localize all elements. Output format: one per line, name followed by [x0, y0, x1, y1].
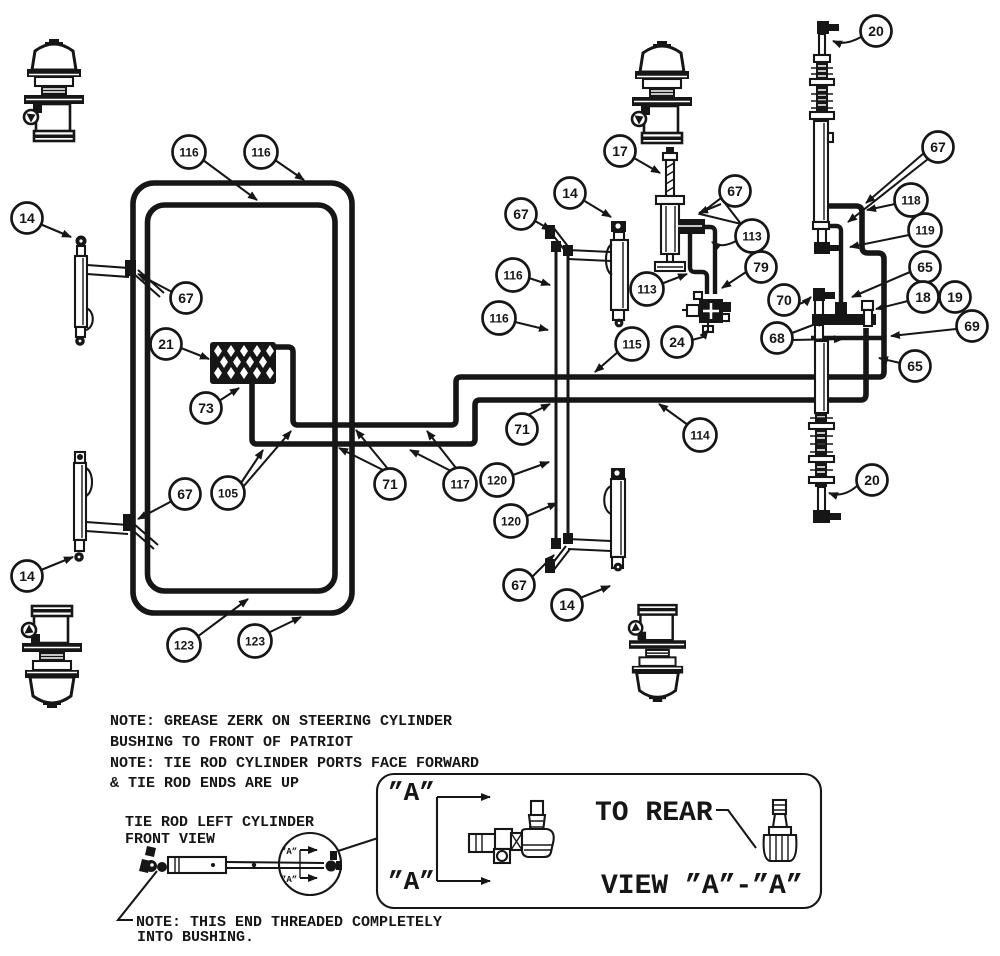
steering arm bottom-center [549, 546, 566, 568]
svg-text:67: 67 [513, 206, 529, 222]
balloon 21 [151, 329, 182, 360]
balloon 18 [908, 282, 939, 313]
view box fitting right: collar [769, 827, 791, 835]
leader 14 top-left [40, 224, 71, 237]
svg-text:120: 120 [487, 474, 507, 488]
balloon 71 mid [507, 414, 538, 445]
svg-text:116: 116 [503, 269, 523, 283]
leader 67 mid triangle [700, 198, 741, 224]
balloon 14 bottom-mid [552, 590, 583, 621]
drag link lower threaded section [815, 413, 827, 487]
drag link mid end fitting [814, 242, 830, 254]
balloon 65 lower [900, 351, 931, 382]
drag link upper collar [814, 55, 830, 62]
tie rod cylinder upper-left: body [75, 256, 87, 327]
leader 67 right double [866, 153, 924, 203]
drag link arm thick bar [812, 314, 876, 325]
leader 14 bottom-mid [580, 586, 610, 598]
steering cylinder 17: body [661, 204, 679, 254]
balloon 117 [444, 468, 477, 501]
svg-text:INTO BUSHING.: INTO BUSHING. [137, 929, 254, 946]
leader 79 [722, 272, 746, 288]
hose 116 vertical pair left line [555, 247, 558, 545]
balloon 79 [746, 252, 777, 283]
drag link steering arm bolts [813, 288, 825, 301]
drag link upper tube [814, 121, 828, 222]
leader 113 left [661, 274, 687, 284]
svg-text:17: 17 [612, 143, 628, 159]
steering arm upper-left [134, 274, 160, 297]
front view tie rod: cylinder body [168, 857, 226, 873]
svg-text:24: 24 [669, 334, 685, 350]
leader 73 [219, 388, 239, 401]
leader 71 double [339, 448, 383, 470]
leader 105 double [241, 450, 263, 483]
balloon 115 [616, 328, 649, 361]
hose 116/123 inner loop [148, 205, 336, 591]
drag link upper rod [819, 34, 825, 55]
svg-text:105: 105 [218, 487, 238, 501]
leader 67 bottom-mid [532, 555, 554, 577]
steering cylinder 17: flange [656, 196, 684, 204]
svg-text:71: 71 [514, 421, 530, 437]
drag link top end fitting [817, 21, 829, 34]
tie rod link lower-left [86, 522, 128, 525]
svg-text:FRONT VIEW: FRONT VIEW [125, 831, 215, 848]
balloon 65 upper [910, 252, 941, 283]
hose 115 lower run from coil to right axle [252, 328, 866, 444]
view box fitting right: ball housing [764, 835, 797, 861]
steering cylinder 17: rod with hatch [666, 160, 674, 196]
balloon 73 [191, 393, 222, 424]
tie rod cylinder upper-left: neck [77, 246, 85, 256]
view A-A box [377, 774, 821, 908]
fitting on hose 119 end [835, 302, 847, 315]
view box bracket arrows [436, 797, 438, 881]
leader 20 bottom [829, 486, 857, 494]
tie rod cylinder bottom-center: body [611, 479, 625, 557]
svg-text:”A”: ”A” [281, 875, 297, 885]
detail circle A [279, 833, 341, 895]
tie rod cylinder bottom-center: rod cap [611, 468, 625, 479]
svg-text:67: 67 [727, 183, 743, 199]
leader 24 [692, 330, 708, 340]
balloon 119 [909, 214, 942, 247]
balloon 120 a [481, 464, 514, 497]
svg-text:116: 116 [251, 146, 271, 160]
svg-text:TIE ROD LEFT CYLINDER: TIE ROD LEFT CYLINDER [125, 814, 314, 831]
tie rod cylinder lower-left: rod cap [75, 452, 85, 463]
svg-text:VIEW ”A”-”A”: VIEW ”A”-”A” [601, 871, 803, 902]
tie rod cylinder bottom-center: clevis and ball [612, 557, 623, 568]
svg-text:116: 116 [179, 146, 199, 160]
tie rod cylinder lower-left: body [74, 463, 86, 540]
svg-text:69: 69 [964, 318, 980, 334]
svg-text:118: 118 [901, 194, 921, 208]
balloon 69 [957, 311, 988, 342]
svg-text:14: 14 [562, 185, 578, 201]
svg-text:14: 14 [19, 210, 35, 226]
svg-text:19: 19 [947, 289, 963, 305]
leader 65 lower [879, 358, 900, 363]
steering arm top-center [549, 230, 566, 252]
balloon 19 [940, 282, 971, 313]
balloon 116 mid-2 [483, 302, 516, 335]
tie rod link top-center [568, 250, 611, 252]
balloon 24 [662, 327, 693, 358]
leader 68 double [792, 320, 826, 333]
leader 115 [595, 351, 619, 372]
svg-text:113: 113 [637, 283, 657, 297]
svg-text:115: 115 [622, 338, 642, 352]
leader detail circle to view box [338, 838, 378, 851]
svg-text:14: 14 [559, 597, 575, 613]
leader 70 [799, 297, 811, 304]
svg-text:14: 14 [19, 568, 35, 584]
svg-text:67: 67 [511, 577, 527, 593]
svg-text:79: 79 [753, 259, 769, 275]
leader 114 [659, 404, 688, 425]
leader 71 mid [528, 404, 550, 415]
fitting 18/19 elbow on hose 115 [862, 301, 873, 310]
hose 113 steering cylinder to valve (upper) [702, 227, 715, 294]
svg-text:123: 123 [245, 635, 265, 649]
tie rod link bottom-center [568, 539, 611, 541]
svg-text:”A”: ”A” [281, 847, 297, 857]
leader 67 bottom-left [138, 501, 172, 519]
view box fitting left: ball housing [522, 829, 554, 857]
svg-text:73: 73 [198, 400, 214, 416]
tie rod cylinder top-center: hook guide [606, 244, 612, 275]
knuckle fitting lower-left [123, 514, 134, 531]
balloon 14 bottom-left [12, 561, 43, 592]
svg-text:113: 113 [742, 230, 762, 244]
leader 21 [181, 348, 209, 359]
leader 116 a [203, 160, 257, 200]
svg-text:20: 20 [868, 23, 884, 39]
svg-text:NOTE: TIE ROD CYLINDER PORTS F: NOTE: TIE ROD CYLINDER PORTS FACE FORWAR… [110, 755, 479, 772]
svg-text:116: 116 [489, 312, 509, 326]
drag link upper threaded section [816, 62, 828, 121]
view box fitting left: threaded tube [469, 834, 497, 852]
tie rod cylinder lower-left: clevis and ball [75, 540, 84, 551]
balloon 70 [769, 285, 800, 316]
hose 116/123 outer loop [133, 183, 352, 613]
svg-text:65: 65 [907, 358, 923, 374]
balloon 20 top [861, 16, 892, 47]
balloon 105 [212, 477, 245, 510]
balloon 123 a [168, 629, 201, 662]
tie rod end bar at drag link [811, 336, 886, 340]
drag link bottom end fitting [813, 510, 830, 523]
view box fitting left: lower circle [494, 849, 510, 863]
view box fitting left: elbow block [495, 829, 512, 849]
drag link mid collar [813, 222, 829, 229]
wheel hub motor bottom-center (inverted) [629, 605, 686, 702]
svg-text:NOTE: GREASE ZERK ON STEERING: NOTE: GREASE ZERK ON STEERING CYLINDER [110, 713, 452, 730]
svg-text:120: 120 [501, 515, 521, 529]
leader 120 a [513, 462, 549, 475]
svg-text:70: 70 [776, 292, 792, 308]
knuckle fitting upper-left [125, 260, 136, 276]
leader 123 b [268, 617, 301, 633]
leader 18 [876, 301, 908, 309]
balloon 120 b [495, 505, 528, 538]
leader to threaded note [118, 871, 157, 920]
leader 69 [891, 329, 956, 336]
hose 113 steering cylinder to valve (lower) [690, 234, 707, 294]
wheel hub motor top-center [632, 41, 692, 143]
steering arm lower-left [130, 528, 154, 549]
svg-text:BUSHING TO FRONT OF PATRIOT: BUSHING TO FRONT OF PATRIOT [110, 734, 353, 751]
svg-text:21: 21 [158, 336, 174, 352]
balloon 17 [605, 136, 636, 167]
drag link mid rod [818, 229, 826, 243]
balloon 71 [375, 469, 406, 500]
svg-text:”A”: ”A” [388, 867, 435, 897]
tie rod cylinder bottom-center: hook guide [604, 486, 611, 514]
valve block 24 [699, 299, 723, 323]
hose end fittings bottom-center [551, 538, 561, 549]
leader 117 double [410, 450, 451, 471]
leader 116 mid-1 [529, 278, 550, 285]
svg-text:123: 123 [174, 639, 194, 653]
view box fitting left: stud [531, 801, 543, 815]
balloon 67 mid [720, 176, 751, 207]
balloon 113 right [736, 220, 769, 253]
front view tie rod: rod [226, 862, 324, 863]
svg-text:18: 18 [915, 289, 931, 305]
svg-text:117: 117 [450, 478, 470, 492]
steering cylinder 17: stem and foot [667, 254, 673, 262]
drag link lower tube [815, 341, 828, 413]
svg-text:67: 67 [930, 139, 946, 155]
svg-text:67: 67 [177, 486, 193, 502]
svg-text:67: 67 [178, 290, 194, 306]
wheel hub motor top-left [24, 39, 84, 141]
balloon 118 [895, 184, 928, 217]
balloon 20 bottom [857, 465, 888, 496]
tie rod cylinder top-center: rod cap [611, 221, 626, 232]
balloon 67 top-left [171, 283, 202, 314]
svg-text:& TIE ROD ENDS ARE UP: & TIE ROD ENDS ARE UP [110, 775, 299, 792]
svg-text:65: 65 [917, 259, 933, 275]
leader 14 mid [583, 200, 611, 217]
tie rod cylinder top-center: clevis and ball [613, 310, 624, 320]
balloon 116 a [173, 136, 206, 169]
balloon 67 bottom-left [170, 479, 201, 510]
leader 67 mid-left [535, 221, 551, 230]
hose 119 inner segment at drag link [826, 226, 841, 303]
balloon 67 mid-left [506, 199, 537, 230]
svg-text:71: 71 [382, 476, 398, 492]
tie rod cylinder upper-left: rod end ball [76, 236, 87, 247]
balloon 14 top-left [12, 203, 43, 234]
leader 116 mid-2 [515, 322, 548, 330]
balloon 123 b [239, 625, 272, 658]
hose 116 vertical pair right line [567, 251, 570, 540]
leader 20 top [833, 37, 861, 43]
hose 114 upper run from coil to right axle [273, 206, 884, 425]
balloon 67 right [923, 132, 954, 163]
balloon 113 left [631, 273, 664, 306]
balloon 68 [762, 323, 793, 354]
hose end fittings top-center [551, 241, 561, 252]
view box fitting right: stud [773, 800, 786, 814]
leader TO REAR to fitting [716, 810, 756, 848]
balloon 116 mid-1 [497, 259, 530, 292]
balloon 14 mid [555, 178, 586, 209]
steering cylinder 17: top cap [666, 147, 674, 153]
tie rod cylinder lower-left: hook guide [86, 468, 92, 496]
svg-text:TO REAR: TO REAR [595, 798, 713, 829]
balloon 114 [684, 419, 717, 452]
coil hose 21 crosshatch [210, 342, 276, 384]
svg-text:114: 114 [690, 429, 710, 443]
tie rod cylinder upper-left: clevis and ball [76, 327, 85, 337]
steering cylinder 17: port block [679, 219, 705, 234]
leader 116 b [275, 160, 304, 180]
leader 118 [867, 204, 895, 210]
tie rod cylinder upper-left: hook guide [86, 308, 93, 330]
tie rod cylinder top-center: body [611, 240, 628, 310]
leader 123 a [197, 599, 248, 637]
leader 120 b [527, 503, 557, 516]
balloon 116 b [245, 136, 278, 169]
leader 65 upper [852, 272, 910, 297]
leader 17 [634, 158, 660, 173]
svg-text:”A”: ”A” [388, 778, 435, 808]
drag link lower rod [818, 487, 825, 511]
wheel hub motor bottom-left (inverted) [22, 606, 82, 708]
leader 113 right [712, 241, 736, 245]
svg-text:119: 119 [915, 224, 935, 238]
tie rod link upper-left [87, 265, 129, 268]
front view tie rod: left stud and ball [145, 846, 156, 857]
svg-text:68: 68 [769, 330, 785, 346]
leader 14 bottom-left [41, 557, 73, 570]
balloon 67 bottom-mid [504, 570, 535, 601]
leader 67 top-left [138, 274, 172, 292]
leader 119 [850, 235, 909, 247]
view box fitting left: adapter [511, 833, 522, 850]
svg-text:20: 20 [864, 472, 880, 488]
